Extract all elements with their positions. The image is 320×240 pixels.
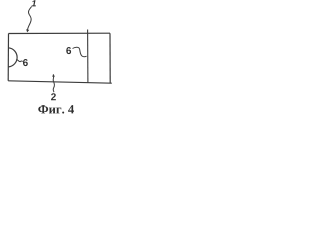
leader line to label 1 (squiggle with arrowhead) — [27, 7, 31, 31]
enclosure 2: bottom wall (slopes slightly, overshoots corner) — [8, 81, 112, 83]
caption: Фиг. 4 — [38, 105, 74, 113]
arrowhead of leader 2 — [52, 74, 55, 77]
label 1 — [32, 0, 36, 6]
label 2 — [51, 93, 56, 100]
enclosure 2: right wall — [109, 33, 111, 83]
enclosure 2: left wall — [7, 34, 9, 81]
label 6 (left, port) — [23, 59, 28, 66]
leader line from right label 6 to partition (hook) — [73, 47, 87, 56]
leader line to label 2 (squiggle through bottom wall) — [53, 75, 54, 93]
leader line to left label 6 (tilde) — [16, 60, 23, 62]
enclosure 2: top wall — [9, 32, 111, 34]
label 6 (right, partition) — [66, 47, 71, 54]
partition wall (vertical divider) — [87, 30, 89, 83]
port arc 6 on left wall — [9, 48, 18, 67]
arrowhead of leader 1 — [26, 29, 29, 32]
